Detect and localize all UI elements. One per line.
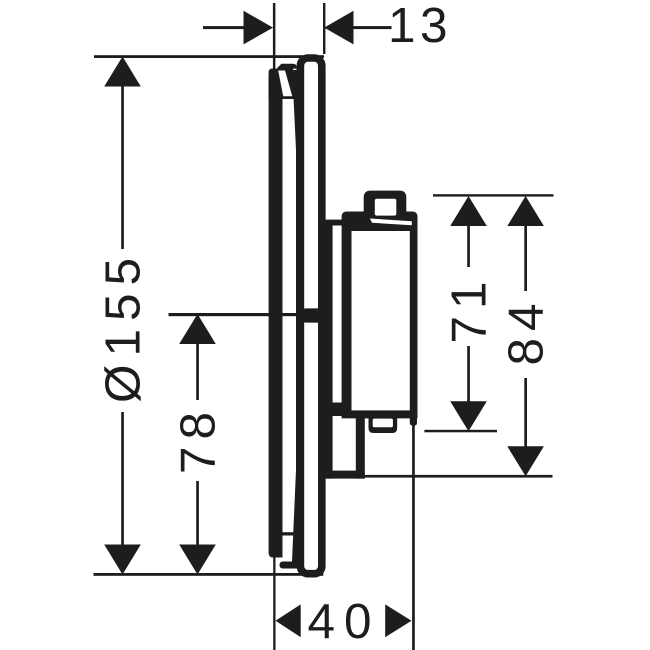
dim 84 lower stem <box>524 378 527 447</box>
back rosette lower tick <box>282 532 295 535</box>
dim 13 left tail <box>203 26 245 29</box>
back rosette bottom edge <box>280 562 298 569</box>
bracket right bar <box>356 417 365 479</box>
button outline <box>364 191 407 213</box>
dim 84 label <box>499 296 554 365</box>
dim 84 bottom extension line <box>364 475 553 478</box>
dim 71 label <box>442 274 497 343</box>
neck plug <box>331 403 342 417</box>
dim 78 label <box>171 405 226 474</box>
dim Ø155 line upper stem <box>121 84 124 249</box>
dim 78 lower stem <box>196 481 199 545</box>
dim 71 upper stem <box>467 225 470 267</box>
back rosette top sliver <box>293 69 297 79</box>
dim 71 arrow up <box>450 196 487 226</box>
dim 13 right tail <box>353 26 392 29</box>
dim 71/84 top extension line <box>433 194 554 196</box>
handle cap sliver <box>370 219 412 226</box>
dim 13 right arrow <box>324 11 353 45</box>
handle interior <box>352 231 410 410</box>
dim 13 right extension line <box>323 3 325 54</box>
dim 84 arrow up <box>507 196 544 226</box>
dim 13 left extension line <box>273 3 276 78</box>
dim 71 lower stem <box>467 346 470 403</box>
svg-text:71: 71 <box>442 274 497 343</box>
dim Ø155 label <box>96 250 151 403</box>
dim 84 upper stem <box>524 225 527 291</box>
dim 78 upper stem <box>196 343 199 400</box>
top tangent line <box>94 55 324 58</box>
handle right edge lower part <box>410 418 417 426</box>
dim 78 arrow down <box>179 545 216 575</box>
back rosette left bar <box>269 72 283 558</box>
dim Ø155 arrow down <box>104 545 141 575</box>
bottom tab <box>369 414 398 433</box>
hub centre marker <box>304 308 328 322</box>
dim 78 top extension line <box>169 313 298 316</box>
dim 40 right arrow <box>385 604 411 637</box>
dim 40 right extension line <box>412 425 415 650</box>
dim 40 left arrow <box>276 604 301 637</box>
bottom tangent line <box>94 573 324 576</box>
front escutcheon outline <box>300 58 321 574</box>
dim 71 arrow down <box>450 401 487 431</box>
svg-text:40: 40 <box>308 594 381 649</box>
bracket bottom bar <box>325 471 365 479</box>
dim 84 arrow down <box>507 446 544 476</box>
handle body fill <box>342 212 418 419</box>
dim 71 bottom extension line <box>424 430 497 433</box>
neck top line <box>324 220 344 226</box>
dim 78 arrow up <box>179 314 216 344</box>
button interior <box>375 199 397 216</box>
dim Ø155 line lower stem <box>121 412 124 545</box>
dim 13 left arrow <box>244 11 274 45</box>
back rosette top block <box>269 64 297 99</box>
svg-text:13: 13 <box>388 0 452 53</box>
dim 40 left extension line <box>273 552 275 650</box>
back rosette top pocket <box>278 71 292 97</box>
svg-text:78: 78 <box>171 405 226 474</box>
bottom tab slot <box>373 419 393 428</box>
neck left wall <box>325 222 333 479</box>
back rosette cone edge band <box>292 70 298 562</box>
svg-text:Ø155: Ø155 <box>96 250 151 403</box>
svg-text:84: 84 <box>499 296 554 365</box>
dim Ø155 arrow up <box>104 57 141 87</box>
